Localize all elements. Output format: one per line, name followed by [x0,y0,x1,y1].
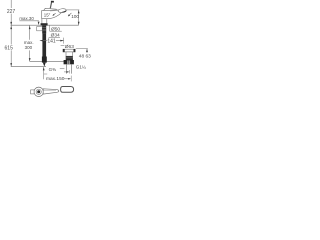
svg-text:615: 615 [5,46,14,52]
waste nut lighter middle [67,60,70,64]
dim 141 line left [40,40,48,42]
dim line 615 vertical [10,25,12,66]
svg-text:141: 141 [47,39,56,45]
spout height extension line [67,9,80,11]
arrowhead 615 down [10,63,12,66]
svg-text:100: 100 [71,14,79,19]
max150 tick [70,76,72,82]
escutcheon flange [41,23,48,25]
svg-text:max.150: max.150 [46,76,65,82]
hose-connection ref line [30,61,67,63]
svg-text:227: 227 [7,9,16,15]
svg-text:Ø63: Ø63 [65,44,74,50]
svg-text:max.30: max.30 [19,16,34,21]
dim 100 vertical [78,10,80,25]
leader arrow to tailpipe [64,71,68,73]
arrowhead 141 left [40,40,43,42]
waste thread dark band [66,56,73,60]
svg-text:300: 300 [25,45,33,50]
dim max.300 vertical upper [29,25,31,39]
spout tip [58,8,67,13]
hose end nut [42,57,47,63]
extension tick 141 [63,38,65,44]
waste cap dark left end [63,49,65,52]
underline O34 [49,37,60,39]
mounting bracket left of shank [37,27,43,31]
waste tailpipe right wall [71,64,73,73]
arrowhead 615 up [10,26,12,29]
body column above deck left [41,19,43,24]
handle side view inner circle [36,89,41,94]
leader tick [69,70,71,73]
threaded shank below deck [42,26,46,34]
handle side view outer circle [34,87,43,96]
arrowhead 48-63 up [86,49,88,52]
G3/8 leader dash [60,68,65,70]
max150 tee [44,73,48,75]
dim max.300 vertical lower [29,50,31,61]
max.30 underline leader [19,20,39,22]
15 deg swivel arrow [53,13,56,15]
arrowhead 100 up [78,10,80,13]
label 227 [7,8,15,14]
svg-text:Ø50: Ø50 [51,26,60,32]
svg-text:G⅜: G⅜ [49,67,57,72]
label 615 [4,44,13,50]
faucet body and spout [42,10,62,19]
waste thread white line [66,57,73,59]
svg-text:15°: 15° [44,12,51,17]
waste cap [63,49,75,52]
handle side view tab [31,90,34,94]
leader line O50 [49,25,51,31]
dim max.150 vertical [43,67,45,79]
waste stem upper [66,52,73,56]
faucet lever [50,2,51,9]
body column above deck right [46,19,48,24]
waste nut facet slit [68,60,70,64]
dim line 227 vertical [10,0,12,25]
leader O63 [61,45,65,47]
waste tailpipe left wall [65,64,67,73]
arrowhead 100 down [78,22,80,25]
spout tip dark under-arc [62,11,66,13]
handle side view hub dot [37,90,40,93]
deck line [11,24,79,26]
arrowhead 227 down [10,22,12,25]
hose tip [43,63,46,67]
cartridge dome [44,8,57,11]
waste nut [64,60,74,64]
arrowhead 141 right [60,40,63,42]
underline O50 [50,30,62,32]
hose-end ref line [11,66,46,68]
handle top view [61,87,74,93]
svg-text:48 63: 48 63 [79,53,91,59]
lever bar inner line [43,89,56,91]
lever knob [51,1,54,3]
leader arrow to spout tip [68,13,71,16]
dim 141 line right [56,40,64,42]
arrowhead max300 down [29,58,31,61]
shank thread lines [42,27,46,29]
max150 arrow right [64,78,69,80]
svg-text:G1¼: G1¼ [76,64,86,69]
dim 48-63 vertical [86,49,88,53]
arrowhead max300 up [29,26,31,29]
dim 48-63 extension line [76,48,88,50]
arrowhead max150 up [43,67,45,70]
spout top line [50,9,60,12]
waste cap dark right end [74,49,76,52]
supply hose bar [42,34,46,57]
max.30 arrow down to deck [38,22,40,25]
handle side view lever bar [43,89,59,94]
